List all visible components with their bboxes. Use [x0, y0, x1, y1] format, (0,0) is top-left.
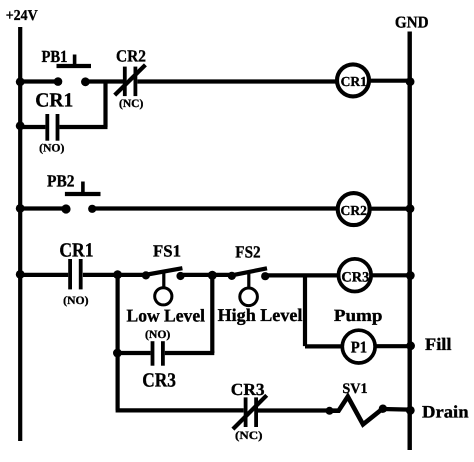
svg-text:FS1: FS1	[153, 241, 181, 260]
svg-text:Low Level: Low Level	[127, 305, 206, 325]
svg-text:CR3: CR3	[231, 380, 265, 399]
svg-text:(NO): (NO)	[39, 143, 65, 155]
svg-text:CR2: CR2	[341, 203, 367, 218]
svg-text:(NO): (NO)	[145, 329, 171, 341]
svg-text:(NO): (NO)	[63, 295, 89, 307]
svg-text:Fill: Fill	[425, 334, 452, 354]
svg-text:SV1: SV1	[342, 381, 367, 397]
svg-text:CR1: CR1	[35, 89, 73, 111]
svg-text:CR1: CR1	[341, 74, 367, 89]
svg-text:PB1: PB1	[42, 47, 68, 66]
svg-text:(NC): (NC)	[119, 98, 144, 110]
svg-text:GND: GND	[395, 13, 429, 32]
svg-text:+24V: +24V	[6, 8, 38, 24]
svg-text:FS2: FS2	[235, 243, 260, 262]
svg-text:PB2: PB2	[47, 171, 75, 190]
svg-text:Pump: Pump	[334, 306, 383, 325]
svg-text:CR3: CR3	[142, 370, 176, 392]
svg-text:(NC): (NC)	[235, 430, 263, 442]
svg-text:CR2: CR2	[116, 46, 146, 65]
svg-text:CR3: CR3	[341, 269, 369, 285]
svg-text:CR1: CR1	[59, 239, 93, 261]
svg-text:P1: P1	[351, 337, 367, 356]
svg-text:Drain: Drain	[422, 402, 469, 422]
svg-text:High Level: High Level	[218, 305, 303, 325]
